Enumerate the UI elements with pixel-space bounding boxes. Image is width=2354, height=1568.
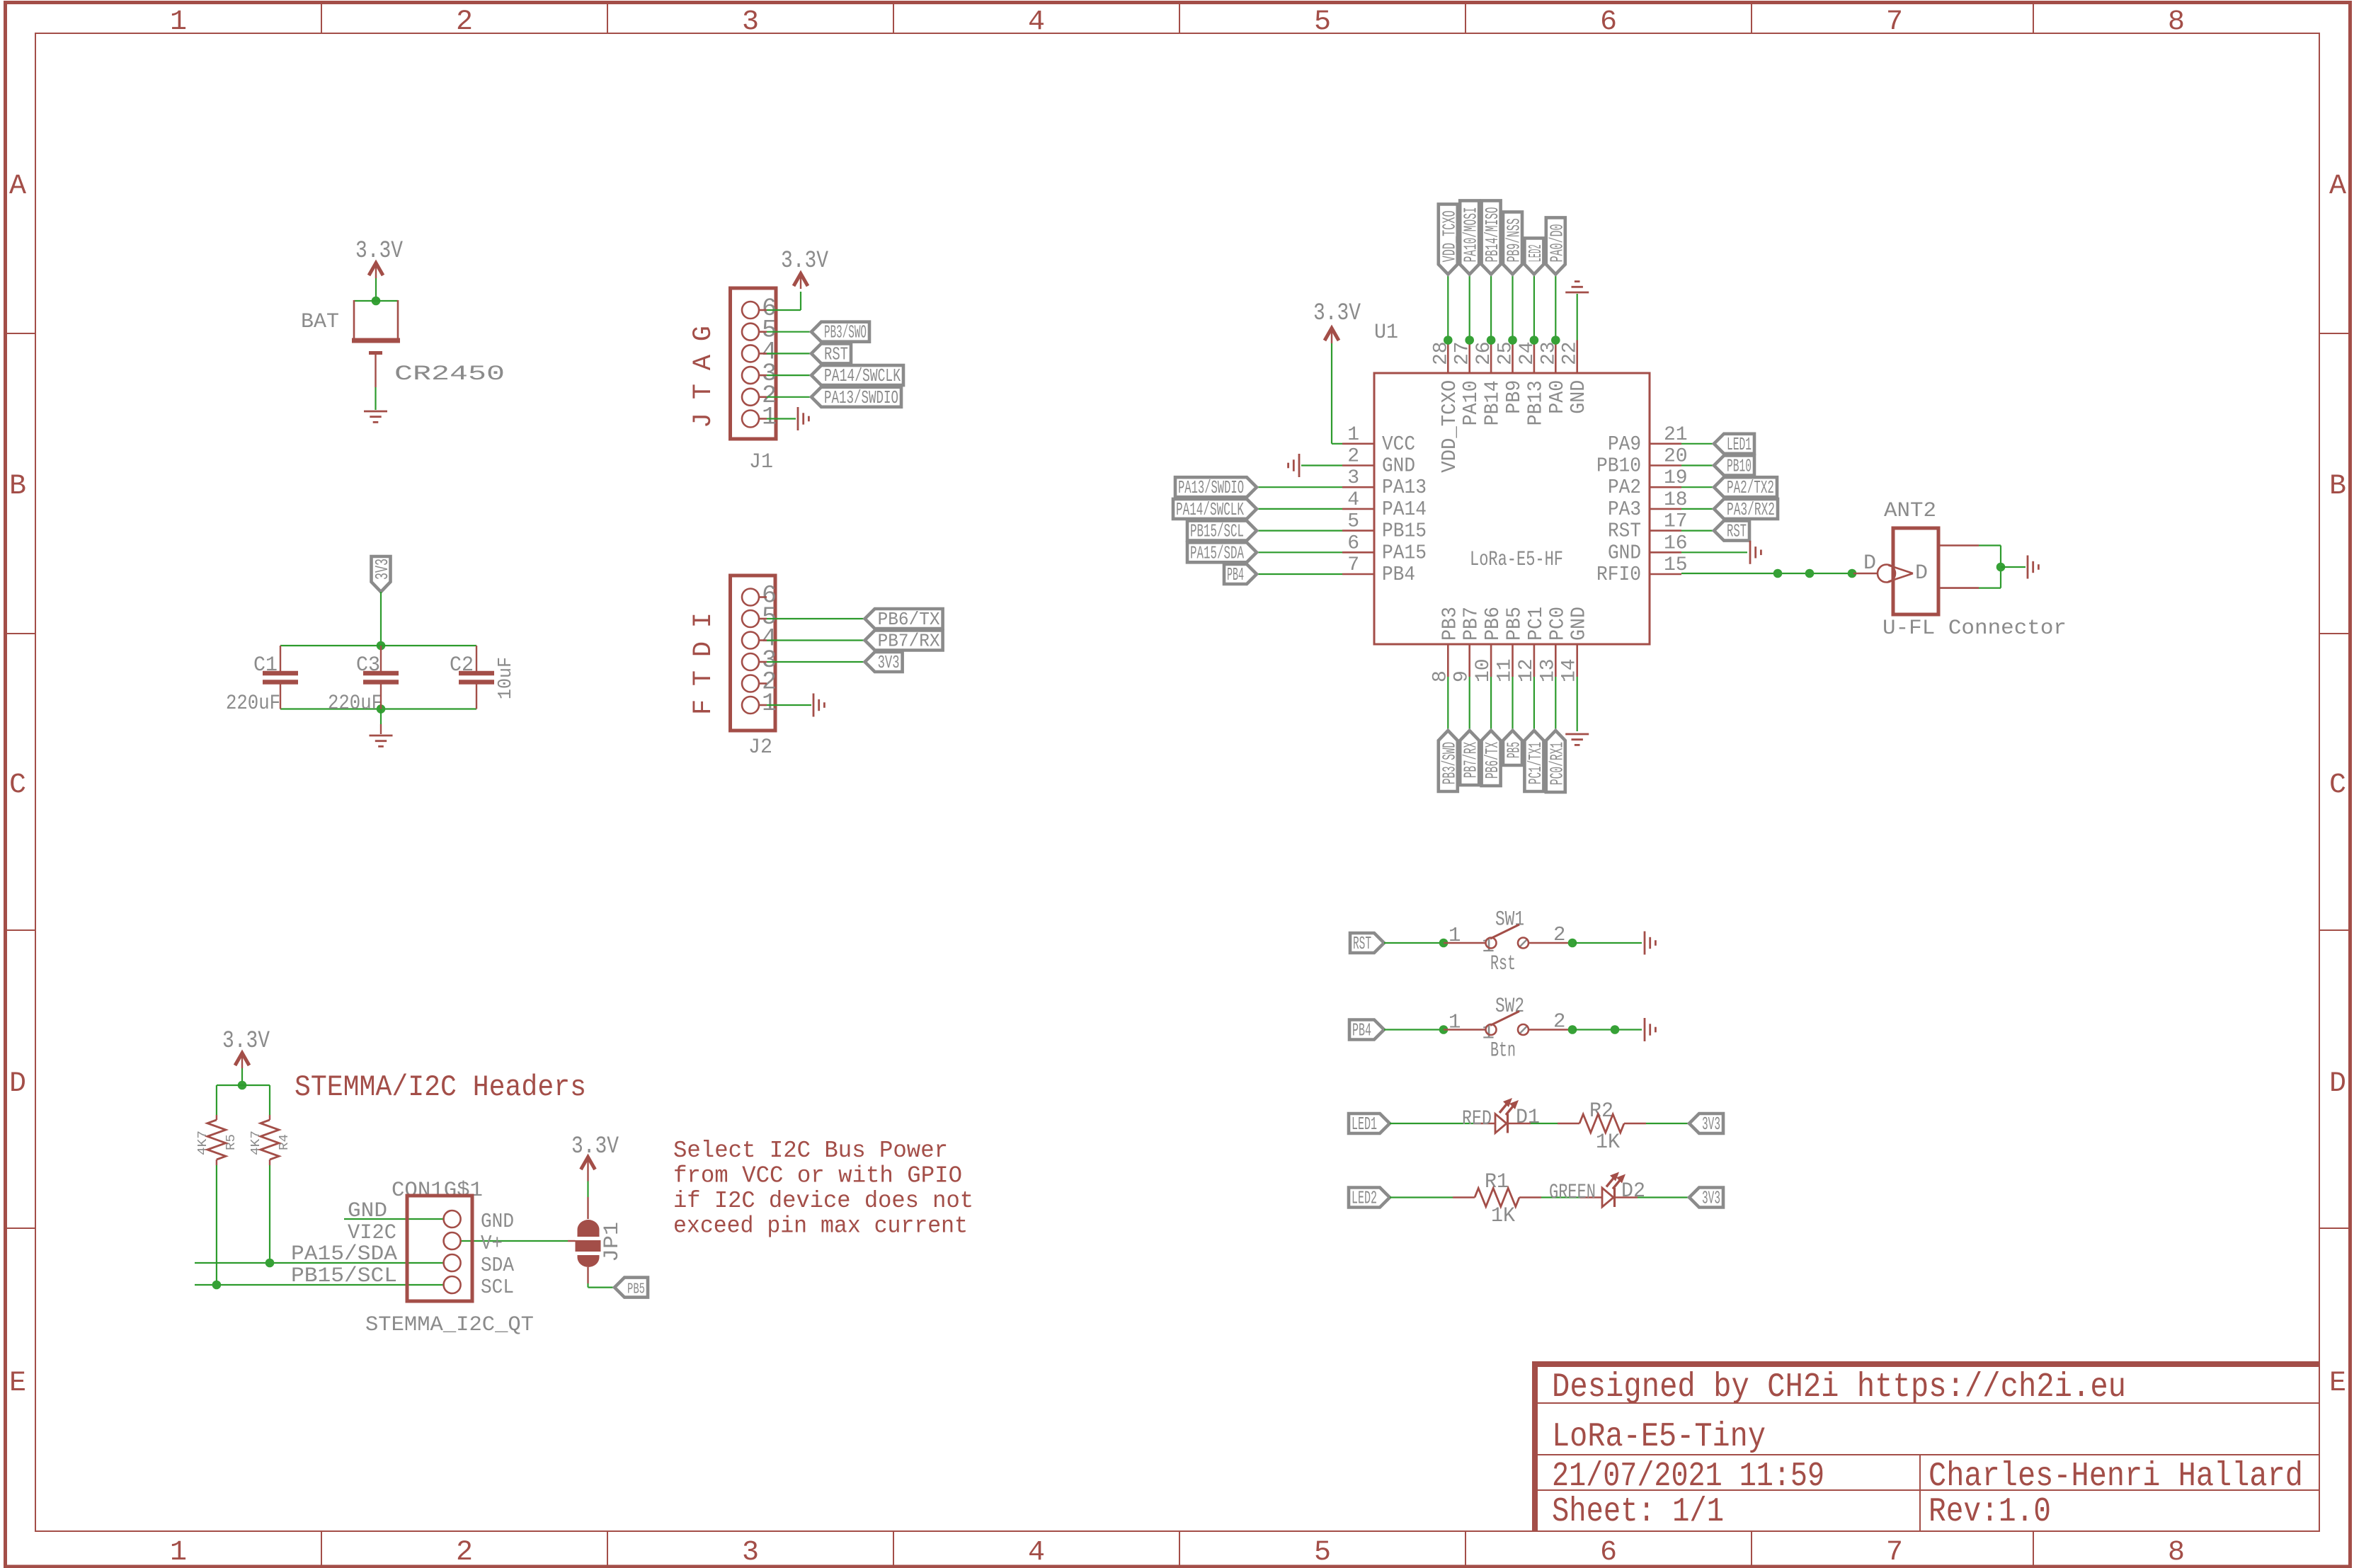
svg-text:7: 7 [1886,1537,1903,1568]
svg-text:SDA: SDA [481,1254,515,1277]
wire [587,1267,588,1283]
wire [216,1165,217,1285]
svg-text:GND: GND [481,1210,514,1233]
junction [1508,336,1517,345]
svg-text:PB10: PB10 [1596,454,1641,478]
junction [1530,336,1539,345]
svg-text:R5: R5 [224,1134,239,1150]
wire [1490,677,1492,731]
svg-text:from VCC or with GPIO: from VCC or with GPIO [673,1163,962,1189]
wire [1257,573,1342,575]
svg-text:10uF: 10uF [496,657,517,699]
svg-text:CR2450: CR2450 [394,362,505,387]
U1 pin 1 VCC [1342,442,1374,445]
svg-text:PB6: PB6 [1481,607,1504,641]
U1 pin 5 PB15 [1342,530,1374,532]
svg-text:B: B [2329,471,2346,503]
svg-text:PB7/RX: PB7/RX [1461,742,1482,778]
wire [1681,551,1747,553]
U1 pin 20 PB10 [1650,464,1681,467]
wire [1384,942,1444,944]
svg-text:1: 1 [170,1537,187,1568]
junction [1805,569,1815,578]
svg-text:26: 26 [1473,341,1495,365]
svg-text:19: 19 [1664,467,1688,489]
svg-text:Designed by CH2i https://ch2i.: Designed by CH2i https://ch2i.eu [1552,1368,2126,1407]
net label PB5 [615,1278,648,1298]
svg-text:2: 2 [1347,446,1359,468]
junction [1773,569,1783,578]
wire [1681,573,1853,574]
wire [767,396,811,398]
wire [1681,508,1714,510]
svg-text:3V3: 3V3 [1702,1114,1720,1135]
svg-text:PC0: PC0 [1545,607,1569,641]
svg-text:PA14/SWCLK: PA14/SWCLK [824,365,901,387]
net label PC0/RX1 [1546,731,1565,792]
svg-text:4: 4 [1347,489,1359,511]
U1 pin 2 GND [1342,464,1374,467]
svg-text:GND: GND [1567,607,1591,641]
svg-text:220uF: 220uF [226,692,280,716]
supply tag 3V3 [1689,1114,1723,1133]
svg-text:STEMMA_I2C_QT: STEMMA_I2C_QT [365,1313,534,1337]
junction [1996,563,2006,572]
svg-text:D1: D1 [1516,1106,1540,1130]
svg-text:220uF: 220uF [328,692,382,716]
junction [265,1259,275,1268]
U1 pin 24 PB13 [1533,341,1536,374]
wire [587,1172,588,1181]
svg-text:1: 1 [1449,924,1461,947]
svg-text:5: 5 [1314,6,1331,38]
wire [1575,1029,1642,1030]
svg-text:PB6/TX: PB6/TX [1482,742,1503,779]
svg-text:PB4: PB4 [1352,1020,1371,1041]
svg-text:25: 25 [1495,341,1517,365]
svg-text:18: 18 [1664,489,1688,511]
svg-text:1: 1 [1347,424,1359,446]
U1 pin 4 PA14 [1342,508,1374,510]
wire [344,1218,443,1220]
wire [1384,1029,1444,1030]
svg-text:1: 1 [1449,1011,1461,1034]
svg-text:D: D [2329,1068,2346,1100]
svg-text:J1: J1 [749,450,773,474]
wire [2001,566,2026,568]
net label PB14/MISO [1482,200,1501,274]
U1 pin 8 PB3 [1447,644,1449,677]
svg-text:1K: 1K [1596,1131,1620,1155]
svg-text:4K7: 4K7 [249,1131,263,1155]
U1 pin 28 VDD_TCXO [1447,341,1449,374]
net label PA13/SWDIO [811,387,901,407]
svg-text:E: E [9,1368,26,1400]
wire [1444,1029,1486,1030]
net label PB15/SCL [1187,521,1257,541]
net label VDD_TCXO [1439,204,1458,274]
svg-text:4K7: 4K7 [196,1131,210,1155]
U1 pin 7 PB4 [1342,573,1374,576]
ground [2027,556,2029,579]
junction [1487,336,1496,345]
junction [1439,939,1449,948]
wire [767,418,796,419]
wire [1469,274,1470,340]
junction [1611,1025,1620,1034]
U1 pin 10 PB6 [1490,644,1492,677]
net label PA3/RX2 [1714,499,1778,519]
ground [1644,1018,1646,1041]
ground [813,694,815,717]
svg-text:PC1/TX1: PC1/TX1 [1525,742,1546,784]
svg-text:CON1G$1: CON1G$1 [392,1179,483,1203]
svg-text:8: 8 [2168,1537,2185,1568]
svg-text:R1: R1 [1485,1170,1509,1194]
svg-text:PA2/TX2: PA2/TX2 [1727,477,1774,498]
wire [461,1240,568,1242]
svg-text:PB15: PB15 [1382,520,1427,543]
U1 pin 11 PB5 [1512,644,1514,677]
svg-text:D: D [1863,551,1876,576]
net label PB5 [1503,731,1522,765]
wire [1257,551,1342,553]
svg-text:J2: J2 [748,736,772,760]
U1 pin 18 PA3 [1650,508,1681,510]
svg-text:PB5: PB5 [627,1282,645,1298]
svg-text:2: 2 [456,1537,473,1568]
svg-text:U1: U1 [1374,321,1398,345]
svg-text:PA2: PA2 [1608,476,1641,499]
U1 pin 9 PB7 [1468,644,1470,677]
U1 pin 6 PA15 [1342,551,1374,554]
U1 pin 22 GND [1576,341,1578,374]
wire [1469,677,1470,731]
svg-text:5: 5 [1347,511,1359,533]
wire [241,1068,243,1085]
svg-text:exceed pin max current: exceed pin max current [673,1213,968,1240]
svg-text:PA14/SWCLK: PA14/SWCLK [1176,499,1244,520]
svg-text:PB7: PB7 [1460,607,1483,641]
svg-text:24: 24 [1516,341,1538,365]
U1 pin 26 PB14 [1490,341,1492,374]
svg-text:RFI0: RFI0 [1596,563,1641,586]
svg-text:Select I2C Bus Power: Select I2C Bus Power [673,1138,948,1164]
svg-text:RST: RST [1608,520,1641,543]
wire [767,661,865,663]
wire [1624,1123,1646,1124]
ground [370,735,393,737]
junction [1439,1025,1449,1034]
svg-text:PA15: PA15 [1382,541,1427,564]
svg-text:1K: 1K [1491,1204,1515,1228]
svg-text:PB3/SWD: PB3/SWD [1439,742,1460,784]
wire [1512,274,1513,340]
wire [1681,486,1714,488]
wire [375,278,377,301]
net label PC1/TX1 [1524,731,1543,791]
svg-text:RST: RST [1727,521,1747,542]
svg-text:3V3: 3V3 [372,559,393,580]
wire [217,1085,270,1086]
U1 pin 13 PC0 [1555,644,1557,677]
svg-text:23: 23 [1538,341,1560,365]
ground [1749,541,1752,564]
net label LED1 [1714,434,1754,454]
wire [269,1165,270,1263]
net label LED2 [1349,1188,1390,1208]
svg-text:PB3/SWO: PB3/SWO [824,322,867,343]
svg-text:GREEN: GREEN [1549,1181,1596,1205]
svg-text:16: 16 [1664,532,1688,554]
svg-text:3V3: 3V3 [1702,1188,1720,1209]
svg-text:PB5: PB5 [1503,607,1526,641]
svg-text:PB4: PB4 [1382,563,1415,586]
svg-text:PA13/SWDIO: PA13/SWDIO [1178,477,1244,498]
svg-text:E: E [2329,1368,2346,1400]
svg-text:D: D [1915,561,1928,585]
svg-text:LoRa-E5-HF: LoRa-E5-HF [1470,548,1563,572]
svg-text:4: 4 [1028,1537,1045,1568]
ground [1644,932,1646,955]
net label PA0/D0 [1546,217,1565,274]
wire [195,1262,443,1264]
net label PB10 [1714,456,1754,476]
svg-text:PB3: PB3 [1438,607,1461,641]
svg-text:PB6/TX: PB6/TX [878,609,940,630]
svg-text:Sheet: 1/1: Sheet: 1/1 [1552,1493,1724,1531]
net label PA14/SWCLK [811,365,903,385]
svg-text:PA3: PA3 [1608,498,1641,521]
wire [1257,486,1342,488]
svg-text:PA10/MOSI: PA10/MOSI [1461,207,1482,262]
net label PB4 [1224,564,1257,584]
svg-text:PB14/MISO: PB14/MISO [1482,207,1503,262]
svg-text:5: 5 [1314,1537,1331,1568]
svg-text:21: 21 [1664,424,1688,446]
net label PB9/NSS [1503,212,1522,274]
svg-text:GND: GND [1382,454,1415,478]
junction [1568,1025,1577,1034]
junction [1568,939,1577,948]
svg-text:U-FL Connector: U-FL Connector [1882,617,2067,641]
svg-text:if I2C device does not: if I2C device does not [673,1188,973,1214]
wire [380,592,382,646]
svg-text:PB7/RX: PB7/RX [878,631,940,652]
svg-text:PA0/D0: PA0/D0 [1546,224,1567,262]
supply tag 3V3 [372,556,391,592]
svg-text:LED1: LED1 [1727,434,1752,455]
wire [767,331,811,333]
wire [1555,677,1556,731]
net label RST [1714,521,1749,541]
wire [1519,1196,1541,1198]
net label PB4 (SW2) [1349,1020,1384,1040]
wire [380,709,382,725]
svg-text:LED2: LED2 [1525,244,1546,262]
U1 pin 21 PA9 [1650,442,1681,445]
svg-text:GND: GND [1567,380,1590,414]
svg-text:Rev:1.0: Rev:1.0 [1929,1493,2051,1531]
svg-text:RED: RED [1462,1107,1492,1131]
svg-text:JTAG: JTAG [689,326,719,428]
junction [212,1281,222,1290]
svg-text:7: 7 [1886,6,1903,38]
svg-text:PB13: PB13 [1524,380,1547,425]
svg-text:22: 22 [1560,341,1582,365]
wire [1447,677,1449,731]
svg-text:8: 8 [2168,6,2185,38]
svg-text:PB4: PB4 [1227,564,1244,585]
svg-text:Charles-Henri Hallard: Charles-Henri Hallard [1929,1458,2303,1496]
svg-text:17: 17 [1664,511,1688,533]
wire [1331,343,1332,444]
svg-text:21/07/2021 11:59: 21/07/2021 11:59 [1552,1458,1824,1496]
svg-text:3.3V: 3.3V [781,248,828,275]
wire [375,387,376,410]
ground [364,411,387,413]
wire [1257,508,1342,510]
svg-text:3: 3 [742,1537,759,1568]
wire [1447,274,1449,340]
junction [377,641,386,651]
svg-text:D: D [9,1068,26,1100]
ground [1298,454,1301,477]
net label LED1 [1349,1114,1390,1133]
net label PA14/SWCLK [1173,499,1257,519]
svg-text:VI2C: VI2C [348,1221,396,1245]
wire [1444,942,1486,944]
svg-text:LED1: LED1 [1352,1114,1377,1135]
svg-text:RST: RST [824,343,848,365]
junction [1848,569,1857,578]
svg-text:PA9: PA9 [1608,433,1641,456]
net label PA10/MOSI [1460,200,1479,274]
svg-text:STEMMA/I2C Headers: STEMMA/I2C Headers [295,1070,586,1104]
wire [1512,677,1513,731]
svg-text:PB5: PB5 [1504,742,1525,758]
svg-text:PB9/NSS: PB9/NSS [1504,218,1525,262]
svg-text:FTDI: FTDI [689,612,719,715]
net label 3V3 [865,652,903,672]
junction [372,297,381,306]
U1 pin 25 PB9 [1512,341,1514,374]
svg-text:3: 3 [742,6,759,38]
title block [1532,1361,2320,1367]
svg-text:VCC: VCC [1382,433,1415,456]
wire [767,639,865,641]
U1 pin 12 PC1 [1533,644,1536,677]
svg-text:PA10: PA10 [1459,380,1482,425]
svg-text:BAT: BAT [301,310,339,334]
net label RST [811,343,851,363]
junction [238,1081,247,1090]
U1 pin 17 RST [1650,530,1681,532]
svg-text:V+: V+ [481,1232,503,1255]
svg-text:PB10: PB10 [1727,456,1752,477]
svg-text:PA14: PA14 [1382,498,1427,521]
svg-text:ANT2: ANT2 [1884,499,1936,523]
wire [767,353,811,354]
wire [1681,464,1714,466]
wire [1616,1196,1638,1198]
svg-text:6: 6 [1347,532,1359,554]
U1 pin 15 RFI0 [1650,573,1681,576]
wire [1390,1123,1473,1124]
ground [1565,733,1589,736]
svg-text:A: A [9,171,26,202]
net label PB3/SWO [811,322,869,342]
svg-text:B: B [9,471,26,503]
net label PA15/SDA [1187,542,1257,562]
svg-text:D2: D2 [1621,1179,1645,1203]
svg-text:RST: RST [1353,933,1371,954]
net label PB7/RX [865,631,943,651]
wire [1979,544,2001,546]
net label RST (SW1) [1350,933,1384,953]
svg-text:VDD_TCXO: VDD_TCXO [1439,210,1460,262]
wire [1555,274,1556,340]
svg-text:1: 1 [170,6,187,38]
U1 pin 16 GND [1650,551,1681,554]
svg-text:20: 20 [1664,446,1688,468]
svg-text:C: C [9,769,26,801]
svg-text:LoRa-E5-Tiny: LoRa-E5-Tiny [1552,1418,1766,1456]
junction [1551,336,1560,345]
U1 pin 23 PA0 [1555,341,1557,374]
IC U1 LoRa-E5-HF [1374,373,1650,644]
svg-text:SCL: SCL [481,1276,514,1299]
ground [1565,292,1589,294]
net label PA13/SWDIO [1175,477,1257,497]
svg-text:1: 1 [762,404,777,432]
svg-text:7: 7 [1347,554,1359,576]
svg-text:GND: GND [1608,541,1641,564]
svg-text:PB15/SCL: PB15/SCL [1190,521,1244,542]
svg-text:6: 6 [1600,1537,1617,1568]
svg-text:3.3V: 3.3V [1313,300,1361,327]
svg-text:3.3V: 3.3V [222,1028,270,1055]
wire [280,645,476,646]
wire [767,618,865,619]
svg-text:3: 3 [1347,467,1359,489]
wire [1577,294,1578,341]
wire [1390,1196,1453,1198]
svg-text:C: C [2329,769,2346,801]
svg-text:3V3: 3V3 [878,652,900,673]
U1 pin 27 PA10 [1468,341,1470,374]
ANT2 pin 1 [1938,544,1979,546]
supply tag 3V3 [1689,1188,1723,1208]
U1 pin 14 GND [1576,644,1578,677]
wire [767,309,801,311]
svg-text:VDD_TCXO: VDD_TCXO [1438,380,1461,473]
wire [1681,530,1714,531]
svg-text:28: 28 [1430,341,1452,365]
net label LED2 [1524,238,1543,274]
svg-text:R4: R4 [278,1134,292,1150]
svg-text:2: 2 [456,6,473,38]
net label PA2/TX2 [1714,477,1777,497]
wire [1533,274,1535,340]
svg-text:PA3/RX2: PA3/RX2 [1727,499,1775,520]
wire [1257,530,1342,531]
wire [1577,677,1578,731]
ground [797,407,799,430]
svg-text:PA0: PA0 [1545,380,1569,414]
wire [1301,464,1342,466]
svg-text:PA13: PA13 [1382,476,1427,499]
